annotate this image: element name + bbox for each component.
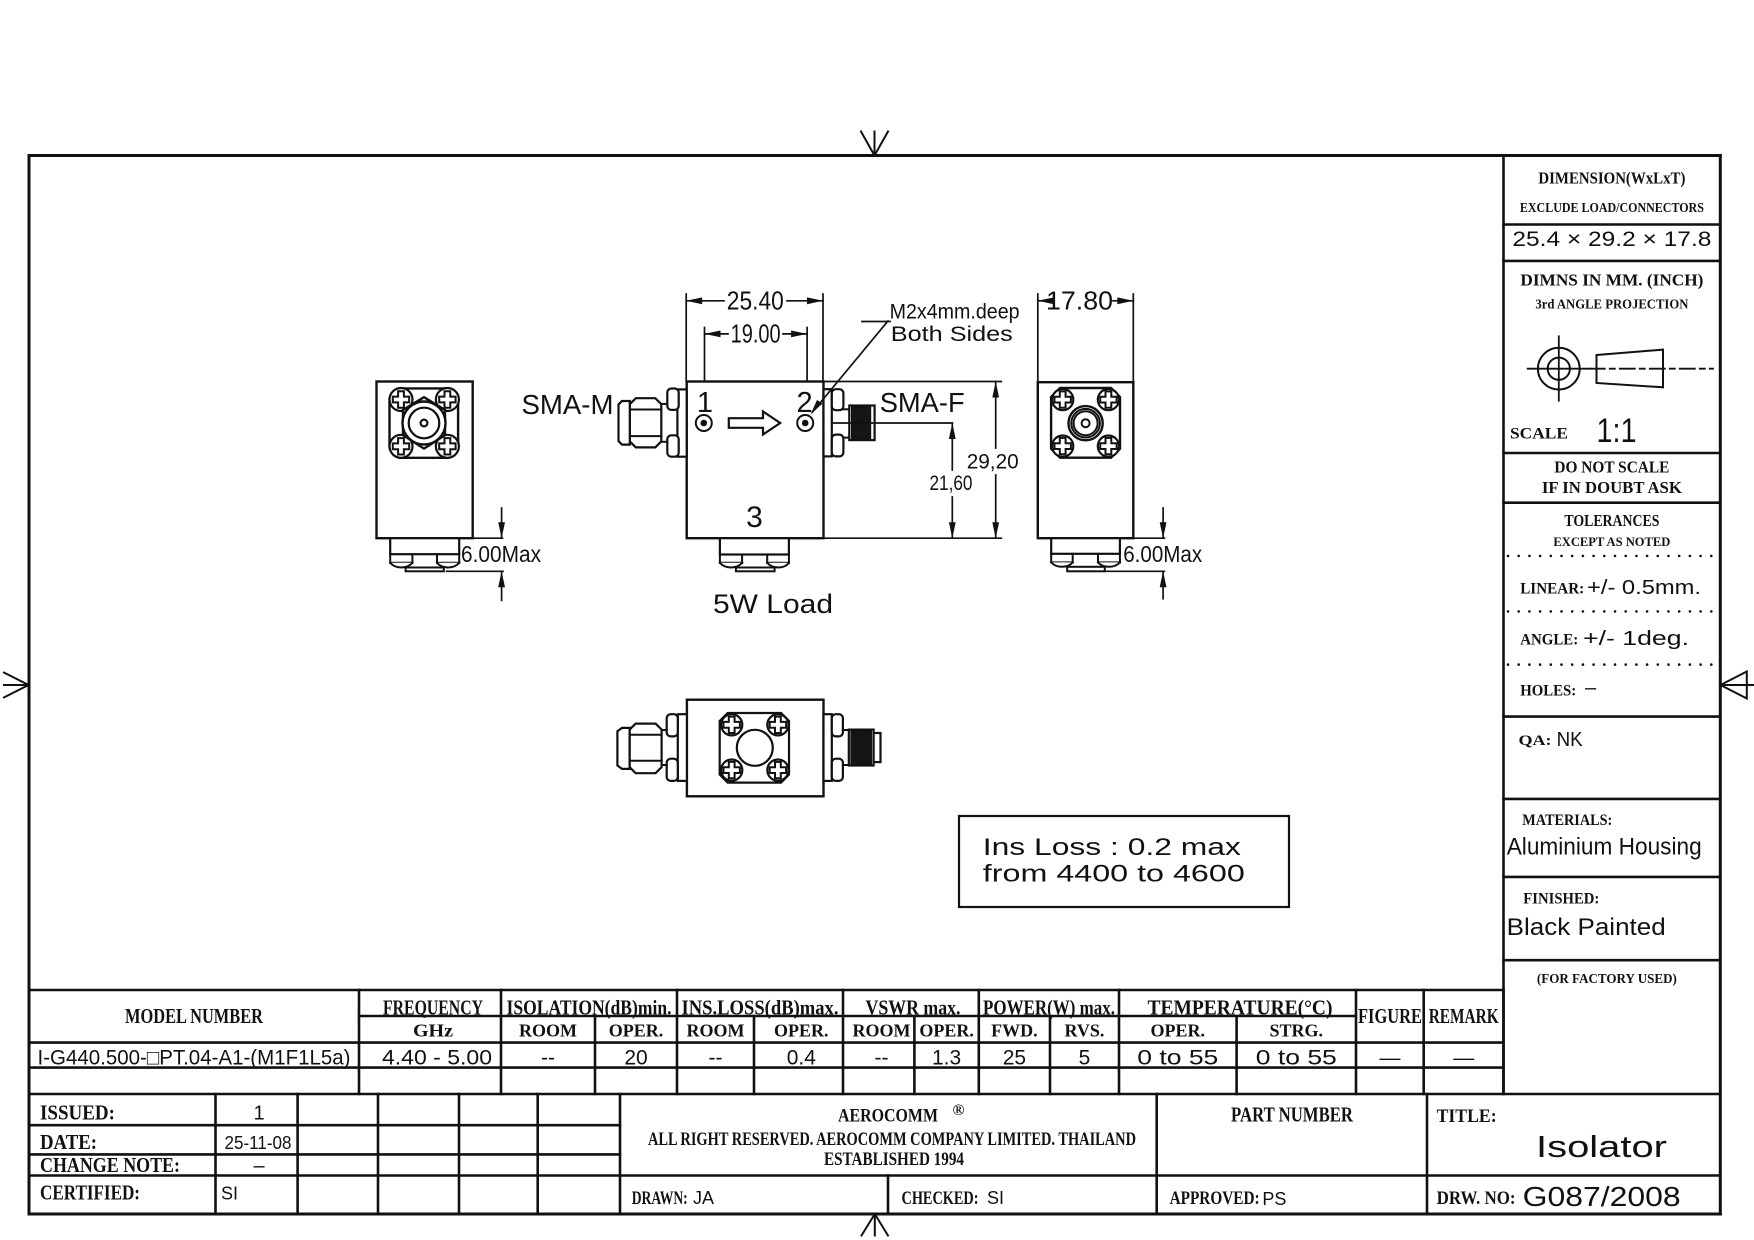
header VSWR max: [866, 996, 961, 1020]
label CHANGE NOTE: [40, 1153, 265, 1177]
right view flange screws: [1052, 389, 1119, 457]
svg-text:DRAWN:: DRAWN:: [632, 1188, 688, 1209]
svg-text:FINISHED:: FINISHED:: [1523, 891, 1599, 908]
M2x4mm thread note: [890, 301, 1020, 347]
svg-text:M2x4mm.deep: M2x4mm.deep: [890, 301, 1020, 324]
svg-text:POWER(W) max.: POWER(W) max.: [983, 996, 1115, 1020]
label DIMENSION(WxLxT): [1538, 169, 1685, 188]
svg-text:—: —: [1380, 1047, 1401, 1070]
svg-text:--: --: [875, 1047, 889, 1070]
port 3 label: [746, 501, 763, 534]
port 2 hole: [797, 415, 813, 431]
svg-text:6.00Max: 6.00Max: [1123, 541, 1202, 567]
port 1 hole: [696, 415, 712, 431]
SMA-M hex body: [630, 398, 662, 447]
company rights line: [648, 1129, 1136, 1150]
centering mark left: [4, 673, 29, 698]
svg-text:20: 20: [624, 1047, 647, 1070]
dimension 19.00: [705, 319, 808, 382]
left view mounting feet: [390, 554, 459, 571]
svg-text:GHz: GHz: [413, 1021, 453, 1041]
svg-text:TEMPERATURE(°C): TEMPERATURE(°C): [1148, 996, 1333, 1020]
forward direction arrow: [729, 412, 780, 435]
SMA-F center line: [832, 422, 953, 424]
thread note leader line: [811, 321, 891, 415]
svg-text:ISOLATION(dB)min.: ISOLATION(dB)min.: [507, 996, 672, 1020]
right view connector rings: [1069, 406, 1103, 440]
label 5W Load: [713, 589, 833, 619]
label DIMNS IN MM. (INCH): [1520, 271, 1703, 290]
tolerance dotted rule 2: [1507, 610, 1713, 613]
svg-text:ALL RIGHT RESERVED. AEROCO: ALL RIGHT RESERVED. AEROCOMM COMPANY LIM…: [648, 1129, 1136, 1150]
svg-text:ISSUED:: ISSUED:: [40, 1101, 115, 1125]
SMA-F neck lines: [843, 409, 849, 437]
dimension 25.40: [686, 286, 823, 382]
svg-text:2: 2: [797, 387, 813, 419]
svg-text:TOLERANCES: TOLERANCES: [1564, 511, 1659, 530]
svg-text:(FOR FACTORY USED): (FOR FACTORY USED): [1537, 972, 1677, 987]
centering mark top: [861, 132, 888, 156]
SMA-M mounting plate: [677, 389, 686, 456]
label EXCLUDE LOAD/CONNECTORS: [1520, 201, 1704, 216]
label APPROVED: [1170, 1188, 1287, 1209]
dimension 17.80: [1038, 286, 1134, 383]
svg-text:OPER.: OPER.: [1151, 1021, 1206, 1041]
svg-text:19.00: 19.00: [731, 319, 781, 349]
drawing number G087/2008: [1523, 1181, 1681, 1212]
svg-text:SMA-M: SMA-M: [522, 389, 614, 420]
svg-text:5: 5: [1079, 1047, 1091, 1070]
svg-text:6.00Max: 6.00Max: [461, 541, 541, 567]
label FINISHED: [1523, 891, 1599, 908]
SMA-M neck lines: [661, 404, 667, 442]
bottom view SMA-F neck lines: [843, 730, 849, 765]
svg-text:17.80: 17.80: [1046, 286, 1113, 316]
dimension 21.60: [930, 423, 973, 538]
svg-text:AEROCOMM: AEROCOMM: [838, 1106, 938, 1127]
svg-text:5W Load: 5W Load: [713, 589, 833, 619]
front view mounting feet: [720, 555, 789, 572]
svg-text:PS: PS: [1262, 1189, 1286, 1209]
svg-text:4.40 - 5.00: 4.40 - 5.00: [382, 1047, 492, 1070]
bottom view body: [687, 700, 824, 797]
left view flange screws: [390, 388, 459, 458]
svg-text:SI: SI: [221, 1184, 238, 1204]
label CERTIFIED: [40, 1181, 238, 1205]
label SMA-F: [880, 387, 965, 418]
bottom view center hole: [737, 730, 773, 766]
right view body: [1038, 382, 1134, 538]
header MODEL NUMBER: [125, 1004, 264, 1028]
svg-text:--: --: [541, 1047, 555, 1070]
svg-text:OPER.: OPER.: [774, 1021, 829, 1041]
svg-text:FREQUENCY: FREQUENCY: [383, 996, 483, 1020]
header FIGURE: [1358, 1004, 1422, 1028]
svg-text:LINEAR:: LINEAR:: [1520, 581, 1584, 598]
svg-text:Aluminium Housing: Aluminium Housing: [1507, 834, 1702, 861]
sub headers ROOM OPER FWD RVS: [519, 1021, 1323, 1041]
svg-text:HOLES:: HOLES:: [1520, 683, 1576, 700]
header ISOLATION(dB)min: [507, 996, 672, 1020]
svg-text:ESTABLISHED 1994: ESTABLISHED 1994: [824, 1149, 964, 1170]
SMA-M flange nuts: [667, 389, 678, 457]
right panel left border: [1502, 156, 1505, 1095]
svg-text:RVS.: RVS.: [1065, 1021, 1105, 1041]
ins loss note box: [959, 816, 1289, 907]
bottom view SMA-F plate: [824, 714, 832, 781]
svg-text:EXCEPT AS NOTED: EXCEPT AS NOTED: [1553, 534, 1670, 549]
spec data row values: [382, 1047, 1474, 1070]
value Black Painted: [1507, 914, 1666, 941]
port 2 label: [797, 387, 813, 419]
svg-text:from 4400 to 4600: from 4400 to 4600: [983, 861, 1245, 888]
dimension value 25.4 x 29.2 x 17.8: [1512, 228, 1711, 251]
svg-text:JA: JA: [693, 1188, 714, 1208]
company established line: [824, 1149, 964, 1170]
header REMARK: [1429, 1004, 1499, 1028]
front view body: [687, 382, 824, 539]
svg-text:MATERIALS:: MATERIALS:: [1522, 812, 1612, 829]
svg-text:SMA-F: SMA-F: [880, 387, 965, 418]
svg-text:DO NOT SCALE: DO NOT SCALE: [1554, 458, 1669, 477]
label SMA-M: [522, 389, 614, 420]
svg-text:1: 1: [253, 1103, 264, 1125]
svg-text:INS.LOSS(dB)max.: INS.LOSS(dB)max.: [682, 996, 839, 1020]
svg-text:Ins Loss : 0.2 max: Ins Loss : 0.2 max: [983, 834, 1241, 861]
svg-text:CERTIFIED:: CERTIFIED:: [40, 1181, 140, 1205]
spec table vertical lines: [359, 990, 1504, 1094]
svg-text:1.3: 1.3: [932, 1047, 961, 1070]
svg-text:SCALE: SCALE: [1510, 426, 1568, 443]
right view connector flange: [1051, 388, 1120, 458]
svg-text:ROOM: ROOM: [519, 1021, 577, 1041]
label TITLE: [1437, 1106, 1497, 1127]
svg-text:EXCLUDE LOAD/CONNECTORS: EXCLUDE LOAD/CONNECTORS: [1520, 201, 1704, 216]
svg-text:OPER.: OPER.: [919, 1021, 974, 1041]
port 1 label: [697, 387, 713, 419]
right view mounting feet: [1051, 554, 1120, 572]
svg-text:OPER.: OPER.: [609, 1021, 664, 1041]
svg-text:VSWR max.: VSWR max.: [866, 996, 961, 1020]
svg-text:ANGLE:: ANGLE:: [1520, 632, 1578, 649]
right view base step: [1051, 538, 1120, 554]
svg-text:Both Sides: Both Sides: [891, 323, 1013, 346]
svg-text:—: —: [1453, 1047, 1474, 1070]
left view body: [377, 382, 473, 539]
svg-text:25.40: 25.40: [727, 286, 784, 316]
left view connector flange: [390, 388, 459, 457]
svg-text:1: 1: [697, 387, 713, 419]
SMA-M pin: [619, 401, 630, 445]
svg-text:Black Painted: Black Painted: [1507, 914, 1666, 941]
scale value 1:1: [1597, 412, 1637, 450]
label TOLERANCES: [1564, 511, 1659, 530]
centering mark bottom: [862, 1214, 889, 1236]
svg-text:1:1: 1:1: [1597, 412, 1637, 450]
svg-text:3: 3: [746, 501, 763, 534]
bottom view SMA-F threaded barrel: [849, 730, 874, 766]
label 3rd ANGLE PROJECTION: [1535, 298, 1688, 313]
svg-text:STRG.: STRG.: [1270, 1021, 1324, 1041]
bottom view SMA-F end cap: [874, 733, 881, 762]
svg-text:REMARK: REMARK: [1429, 1004, 1499, 1028]
bottom view SMA-M tip: [617, 728, 629, 769]
label PART NUMBER: [1231, 1103, 1354, 1127]
svg-text:IF IN DOUBT ASK: IF IN DOUBT ASK: [1542, 478, 1683, 497]
svg-text:®: ®: [953, 1102, 965, 1119]
svg-text:25.4 × 29.2 × 17.8: 25.4 × 29.2 × 17.8: [1512, 228, 1711, 251]
left view connector rings: [403, 402, 446, 445]
svg-text:NK: NK: [1557, 729, 1584, 751]
svg-text:G087/2008: G087/2008: [1523, 1181, 1681, 1212]
front view base step: [720, 538, 789, 554]
svg-text:SI: SI: [987, 1188, 1004, 1208]
label (FOR FACTORY USED): [1537, 972, 1677, 987]
SMA-F flange nuts: [832, 389, 844, 456]
SMA-F threaded barrel: [849, 406, 874, 441]
svg-text:3rd ANGLE PROJECTION: 3rd ANGLE PROJECTION: [1535, 298, 1688, 313]
label DATE: [40, 1130, 292, 1154]
svg-text:APPROVED:: APPROVED:: [1170, 1188, 1260, 1209]
svg-text:–: –: [1585, 677, 1597, 699]
svg-text:+/- 0.5mm.: +/- 0.5mm.: [1587, 577, 1701, 599]
bottom view flange screws: [721, 714, 788, 781]
bottom view SMA-M hex: [630, 724, 662, 774]
bottom view SMA-M ears: [667, 714, 678, 781]
svg-text:CHECKED:: CHECKED:: [902, 1188, 979, 1209]
value Aluminium Housing: [1507, 834, 1702, 861]
svg-text:CHANGE NOTE:: CHANGE NOTE:: [40, 1153, 180, 1177]
svg-text:DIMNS IN MM. (INCH): DIMNS IN MM. (INCH): [1520, 271, 1703, 290]
svg-text:Isolator: Isolator: [1536, 1129, 1667, 1164]
svg-text:29,20: 29,20: [967, 451, 1019, 474]
centering mark right: [1721, 672, 1754, 699]
svg-text:QA:: QA:: [1519, 733, 1552, 749]
label IF IN DOUBT ASK: [1542, 478, 1683, 497]
label DRAWN: [632, 1188, 714, 1209]
svg-text:DIMENSION(WxLxT): DIMENSION(WxLxT): [1538, 169, 1685, 188]
left view base step: [390, 538, 459, 554]
bottom view SMA-M plate: [678, 714, 687, 781]
label MATERIALS: [1522, 812, 1612, 829]
svg-text:ROOM: ROOM: [687, 1021, 745, 1041]
svg-text:FWD.: FWD.: [991, 1021, 1038, 1041]
tolerance dotted rule 3: [1507, 663, 1713, 666]
header INS.LOSS(dB)max: [682, 996, 839, 1020]
issued block lines: [29, 1094, 1720, 1214]
svg-text:0 to 55: 0 to 55: [1137, 1047, 1218, 1070]
right panel section dividers: [1504, 225, 1721, 961]
model number value: [38, 1047, 351, 1070]
svg-text:–: –: [253, 1155, 265, 1177]
bottom view SMA-M neck lines: [662, 730, 667, 765]
svg-text:TITLE:: TITLE:: [1437, 1106, 1497, 1127]
tolerance dotted rule 1: [1507, 555, 1713, 558]
svg-text:0 to 55: 0 to 55: [1256, 1047, 1337, 1070]
label HOLES tolerance: [1520, 677, 1597, 700]
svg-text:0.4: 0.4: [787, 1047, 817, 1070]
spec table horizontal lines: [29, 990, 1720, 1094]
ins loss note text: [983, 834, 1245, 888]
svg-text:21,60: 21,60: [930, 472, 973, 495]
svg-text:PART NUMBER: PART NUMBER: [1231, 1103, 1354, 1127]
dimension 6.00Max right: [1106, 508, 1203, 599]
svg-text:DATE:: DATE:: [40, 1130, 97, 1154]
header FREQUENCY GHz: [383, 996, 483, 1041]
header TEMPERATURE(C): [1148, 996, 1333, 1020]
bottom view flange plate: [720, 713, 789, 783]
svg-text:MODEL NUMBER: MODEL NUMBER: [125, 1004, 264, 1028]
header POWER(W) max: [983, 996, 1115, 1020]
third angle projection symbol: [1528, 336, 1713, 400]
svg-text:ROOM: ROOM: [853, 1021, 911, 1041]
svg-text:FIGURE: FIGURE: [1358, 1004, 1422, 1028]
svg-text:+/- 1deg.: +/- 1deg.: [1583, 628, 1689, 650]
label DRW NO: [1437, 1188, 1516, 1209]
svg-text:--: --: [709, 1047, 723, 1070]
svg-text:DRW. NO:: DRW. NO:: [1437, 1188, 1516, 1209]
dimension 29.20: [824, 382, 1019, 539]
svg-text:25: 25: [1003, 1047, 1026, 1070]
dimension 6.00Max left: [447, 508, 542, 600]
label ISSUED: [40, 1101, 265, 1125]
label CHECKED: [902, 1188, 1005, 1209]
svg-text:I-G440.500-□PT.04-A1-(M1F1L5a): I-G440.500-□PT.04-A1-(M1F1L5a): [38, 1047, 351, 1070]
company name AEROCOMM: [838, 1102, 965, 1127]
label SCALE: [1510, 426, 1568, 443]
label EXCEPT AS NOTED: [1553, 534, 1670, 549]
label DO NOT SCALE: [1554, 458, 1669, 477]
title Isolator: [1536, 1129, 1667, 1164]
label LINEAR tolerance: [1520, 577, 1701, 599]
bottom view SMA-F ears: [832, 714, 843, 781]
svg-text:25-11-08: 25-11-08: [225, 1133, 292, 1153]
label QA: [1519, 729, 1584, 751]
SMA-F mounting plate: [824, 389, 832, 456]
label ANGLE tolerance: [1520, 628, 1689, 650]
left view connector hex nut: [403, 397, 445, 448]
